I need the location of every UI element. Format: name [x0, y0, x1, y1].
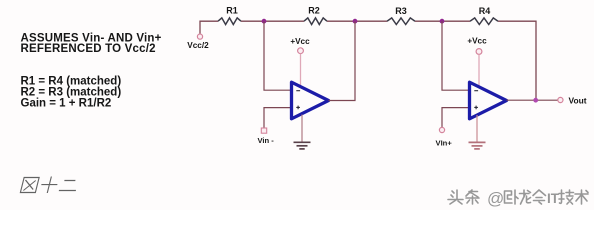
svg-text:Gain = 1 + R1/R2: Gain = 1 + R1/R2 — [21, 98, 112, 110]
svg-text:+Vcc: +Vcc — [467, 36, 487, 45]
glyph 条 — [466, 190, 479, 204]
op-amp U2 — [470, 82, 507, 119]
wire: node C down to U2 inverting input — [442, 21, 469, 90]
wire: R3 to R4 through node C — [415, 20, 470, 22]
node D junction dot output/feedback — [533, 98, 538, 103]
caption 图十二 (figure twelve, drawn strokes) — [20, 177, 79, 194]
note text block — [21, 32, 162, 109]
wire: U2 non-inverting input to Vin+ terminal — [442, 108, 469, 128]
wire: U1 non-inverting input to Vin- terminal — [264, 108, 291, 128]
svg-text:@: @ — [487, 189, 504, 208]
ground (U2) — [469, 142, 486, 149]
wire: U2 output to Vout — [507, 99, 558, 101]
svg-text:R2: R2 — [308, 6, 320, 16]
resistor R3 — [387, 6, 415, 25]
terminal Vin+ — [436, 127, 453, 147]
svg-text:Vin -: Vin - — [258, 136, 275, 145]
wire: U1 output up to node B — [329, 21, 356, 100]
svg-text:+Vcc: +Vcc — [290, 37, 310, 46]
glyph 卧 — [505, 190, 519, 204]
op-amp U1 — [292, 82, 329, 119]
power +Vcc (U2) — [467, 36, 487, 87]
svg-text:REFERENCED TO Vcc/2: REFERENCED TO Vcc/2 — [21, 43, 156, 55]
svg-text:R3: R3 — [395, 6, 407, 16]
wire: R2 to R3 through node B — [327, 20, 387, 22]
svg-text:VIn+: VIn+ — [436, 138, 453, 147]
wire: R1 to R2 through node A — [241, 20, 304, 22]
watermark 头条@卧龙会IT技术 (drawn strokes) — [448, 189, 588, 208]
glyph 术 — [575, 190, 588, 204]
terminal Vin- (square) — [258, 128, 275, 145]
glyph 头 — [448, 190, 463, 204]
terminal Vout — [558, 95, 587, 105]
wire: U1 negative supply to ground — [301, 115, 303, 143]
wire: R4 to right rail corner down to output — [498, 21, 536, 100]
resistor R2 — [304, 6, 327, 25]
terminal Vcc/2 — [187, 34, 209, 50]
wire: +Vcc to U1 supply pin — [300, 54, 302, 87]
svg-text:R4: R4 — [479, 6, 491, 16]
resistor R4 — [470, 6, 498, 25]
glyph 龙 — [520, 190, 531, 204]
resistor R1 — [218, 6, 241, 25]
svg-text:Vcc/2: Vcc/2 — [187, 41, 209, 50]
glyph 技 — [559, 190, 574, 204]
svg-text:Vout: Vout — [569, 95, 587, 105]
wire: top rail segment Vcc/2 to R1 — [200, 21, 536, 100]
node C junction dot R3/R4 — [440, 19, 445, 24]
svg-text:IT: IT — [547, 191, 560, 206]
node A junction dot R1/R2 — [262, 19, 267, 24]
power +Vcc (U1) — [290, 37, 310, 87]
glyph 会 — [533, 190, 546, 204]
wire: node A down to U1 inverting input — [264, 21, 291, 90]
wire: +Vcc to U2 supply pin — [478, 54, 480, 87]
ground (U1) — [294, 142, 311, 149]
node B junction dot R2/R3 — [353, 19, 358, 24]
wire: U2 negative supply to ground — [476, 115, 478, 142]
svg-text:R1: R1 — [226, 6, 238, 16]
